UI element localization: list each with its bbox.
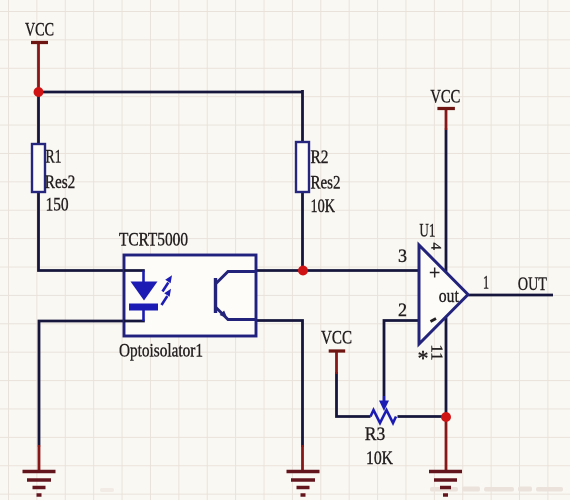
svg-text:1: 1 — [483, 273, 489, 294]
svg-text:*: * — [418, 346, 429, 371]
svg-text:2: 2 — [398, 300, 407, 321]
svg-text:+: + — [429, 262, 440, 284]
svg-text:R1: R1 — [46, 147, 62, 168]
svg-text:VCC: VCC — [430, 87, 460, 108]
svg-text:10K: 10K — [366, 448, 393, 469]
svg-text:Res2: Res2 — [45, 172, 76, 193]
svg-text:VCC: VCC — [25, 20, 54, 41]
svg-text:150: 150 — [46, 195, 69, 216]
svg-text:out: out — [439, 286, 460, 307]
svg-text:Res2: Res2 — [311, 173, 341, 194]
svg-text:TCRT5000: TCRT5000 — [119, 230, 188, 251]
svg-text:Optoisolator1: Optoisolator1 — [119, 341, 203, 362]
svg-text:R2: R2 — [311, 147, 329, 168]
svg-text:OUT: OUT — [518, 274, 547, 295]
svg-text:R3: R3 — [365, 424, 386, 445]
svg-text:U1: U1 — [419, 221, 435, 242]
svg-text:3: 3 — [398, 246, 407, 267]
svg-text:VCC: VCC — [321, 328, 352, 349]
svg-text:10K: 10K — [311, 196, 336, 217]
svg-text:11: 11 — [428, 344, 447, 360]
svg-text:4: 4 — [428, 243, 444, 251]
